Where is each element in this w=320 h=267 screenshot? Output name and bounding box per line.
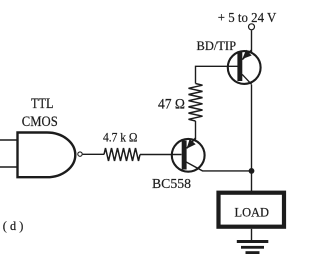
resistor R1 4.7 kOhm zigzag <box>104 148 140 161</box>
svg-text:TTL: TTL <box>31 96 54 112</box>
svg-text:47 Ω: 47 Ω <box>158 96 185 112</box>
svg-text:LOAD: LOAD <box>235 205 270 220</box>
junction node dot <box>249 168 255 174</box>
wire Q1 emitter up to R2 <box>195 121 197 140</box>
transistor Q1 base bar <box>182 141 187 170</box>
resistor R2 47 Ohm vertical zigzag <box>189 84 203 122</box>
wire Q2 collector down to LOAD <box>251 85 253 193</box>
wire input 2 of gate U1 <box>0 166 18 168</box>
supply terminal circle <box>249 24 255 30</box>
wire R2 top to base of Q2 <box>196 66 238 83</box>
ground bar 3 <box>246 251 260 254</box>
wire LOAD to ground <box>251 229 253 240</box>
svg-text:CMOS: CMOS <box>22 114 58 130</box>
svg-text:( d ): ( d ) <box>3 218 24 233</box>
wire bubble to R1 <box>83 153 104 155</box>
NAND gate U1 body <box>18 133 76 178</box>
transistor Q2 base bar <box>237 52 242 81</box>
svg-text:+ 5 to 24 V: + 5 to 24 V <box>218 11 276 26</box>
svg-text:BC558: BC558 <box>152 177 191 192</box>
transistor Q2 collector lead <box>242 74 251 84</box>
transistor Q1 collector lead <box>186 162 251 171</box>
svg-text:4.7 k Ω: 4.7 k Ω <box>103 131 138 145</box>
svg-text:BD/TIP: BD/TIP <box>197 38 237 53</box>
wire R1 to base of Q1 <box>140 154 182 156</box>
wire input 1 of gate U1 <box>0 139 18 141</box>
transistor Q2 BD/TIP circle <box>228 51 261 84</box>
transistor Q1 BC558 circle <box>172 139 205 172</box>
transistor Q1 emitter lead with arrow <box>187 138 196 148</box>
NAND gate U1 output inverter bubble <box>78 152 82 156</box>
LOAD box <box>219 193 285 227</box>
wire terminal to Q2 emitter <box>251 30 253 52</box>
ground bar 2 <box>241 246 264 249</box>
transistor Q2 emitter lead with arrow <box>242 50 251 60</box>
ground bar 1 <box>237 240 268 243</box>
